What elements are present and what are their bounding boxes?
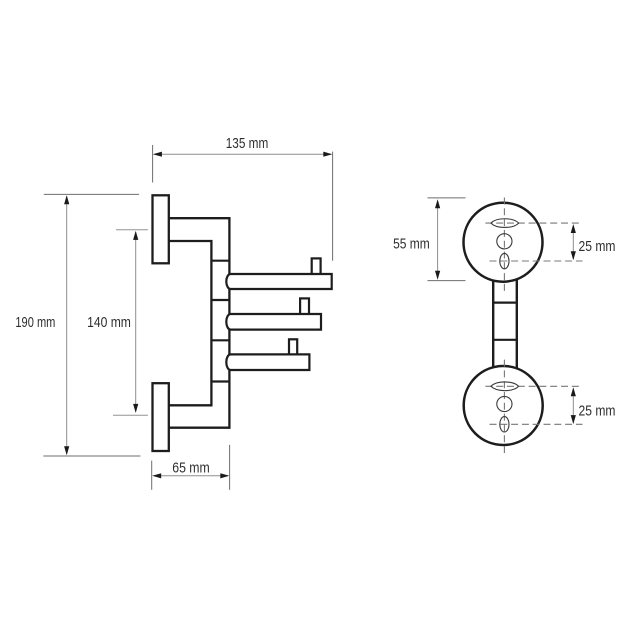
svg-text:55 mm: 55 mm [393, 235, 430, 252]
svg-text:140 mm: 140 mm [87, 314, 131, 331]
svg-text:25 mm: 25 mm [579, 238, 616, 255]
svg-text:135 mm: 135 mm [226, 135, 269, 152]
svg-text:25 mm: 25 mm [579, 402, 616, 419]
svg-text:190 mm: 190 mm [15, 314, 55, 331]
svg-text:65 mm: 65 mm [172, 460, 210, 477]
